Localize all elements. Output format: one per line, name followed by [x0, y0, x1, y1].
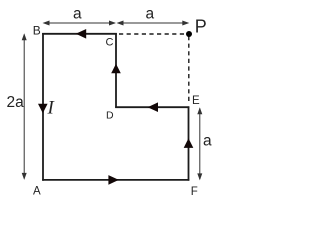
dashed line C-P [119, 33, 189, 35]
svg-text:C: C [106, 37, 114, 49]
dimension line a (top-right span C..P) [118, 22, 188, 24]
svg-text:a: a [203, 133, 212, 150]
current arrow on D-E pointing left [148, 102, 158, 112]
svg-text:2a: 2a [7, 94, 25, 111]
dashed line P-E [188, 36, 190, 104]
svg-text:P: P [195, 17, 207, 37]
dimension line 2a (left span B..A) [23, 35, 25, 179]
node P dot [186, 31, 192, 37]
dimension line a (right span E..F) [199, 109, 201, 179]
current arrow on B-C pointing left [76, 29, 86, 39]
svg-text:E: E [192, 95, 200, 107]
svg-text:a: a [146, 6, 155, 23]
wire segment A-B (left) [42, 33, 44, 181]
current arrow on C-D pointing up [111, 64, 121, 74]
dimension line a (top-left span B..C) [44, 22, 115, 24]
svg-text:B: B [33, 23, 41, 37]
svg-text:I: I [47, 98, 56, 119]
svg-text:a: a [73, 6, 82, 23]
wire segment E-F (right) [188, 106, 190, 180]
wire segment D-E (horizontal middle) [115, 106, 189, 108]
current arrow I on A-B pointing down [38, 104, 48, 114]
current arrow on A-F pointing right [108, 175, 118, 185]
svg-text:A: A [33, 186, 41, 198]
svg-text:F: F [191, 186, 198, 198]
current arrow on F-E pointing up [184, 138, 194, 148]
wire segment C-D (vertical middle) [115, 33, 117, 108]
wire segment A-F (bottom) [42, 179, 189, 181]
wire segment B-C (top) [42, 33, 117, 35]
svg-text:D: D [106, 110, 114, 122]
